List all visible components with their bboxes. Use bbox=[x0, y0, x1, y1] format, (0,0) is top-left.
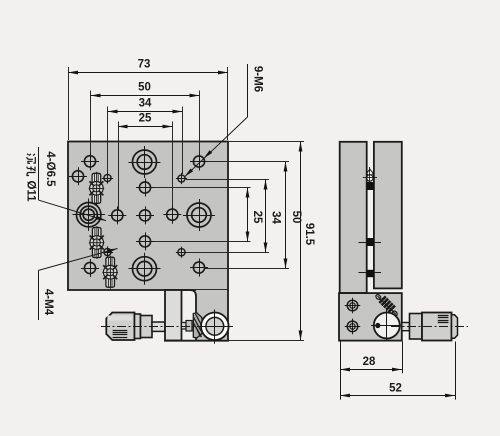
svg-text:91.5: 91.5 bbox=[303, 223, 315, 246]
svg-text:34: 34 bbox=[139, 98, 152, 110]
svg-text:4-Ø6.5: 4-Ø6.5 bbox=[44, 151, 56, 187]
svg-text:25: 25 bbox=[251, 211, 263, 224]
svg-text:50: 50 bbox=[138, 82, 151, 94]
svg-text:4-M4: 4-M4 bbox=[42, 289, 54, 316]
svg-text:34: 34 bbox=[270, 211, 282, 224]
svg-text:25: 25 bbox=[139, 113, 152, 125]
svg-text:52: 52 bbox=[389, 382, 402, 394]
svg-text:9-M6: 9-M6 bbox=[252, 66, 264, 92]
svg-text:28: 28 bbox=[363, 356, 376, 368]
svg-text:50: 50 bbox=[290, 211, 302, 224]
svg-text:Ø11: Ø11 bbox=[25, 180, 37, 202]
svg-text:73: 73 bbox=[138, 59, 151, 71]
